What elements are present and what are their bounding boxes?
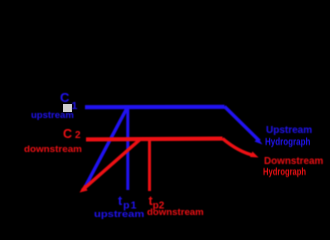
right label: Hydrograph Curve (red line 2) <box>263 168 306 178</box>
word upstream (left, blue) <box>31 111 74 121</box>
upstream curve arrowhead <box>255 138 263 145</box>
label C1 : C glyph <box>60 91 69 104</box>
right label: Downstream <box>264 156 323 167</box>
label C1 : subscript 1 <box>72 101 78 112</box>
word downstream (left, red) <box>24 145 82 155</box>
word upstream (bottom, blue) <box>94 210 144 219</box>
label C2 : C glyph <box>63 128 72 141</box>
downstream curve plateau C2 level line <box>86 137 223 142</box>
downstream curve falling limb <box>223 139 255 156</box>
word downstream (bottom, red) <box>147 208 204 217</box>
label tp2 <box>149 195 165 212</box>
downstream curve origin arrowhead <box>80 185 88 193</box>
upstream curve plateau C1 level line <box>85 105 225 109</box>
downstream curve rising limb <box>83 140 140 190</box>
label C2 : subscript 2 <box>75 131 81 141</box>
upstream curve rising limb <box>85 108 128 188</box>
label tp1 <box>118 195 137 211</box>
upstream peak-time vertical dropper <box>126 109 129 190</box>
right label: Upstream <box>266 126 312 136</box>
white box under subscript <box>63 104 72 113</box>
upstream curve falling limb <box>225 107 260 142</box>
downstream curve arrowhead <box>250 152 259 158</box>
right label: Hydrograph Curve (blue line 2) <box>265 138 310 148</box>
downstream peak-time vertical dropper <box>148 140 151 191</box>
